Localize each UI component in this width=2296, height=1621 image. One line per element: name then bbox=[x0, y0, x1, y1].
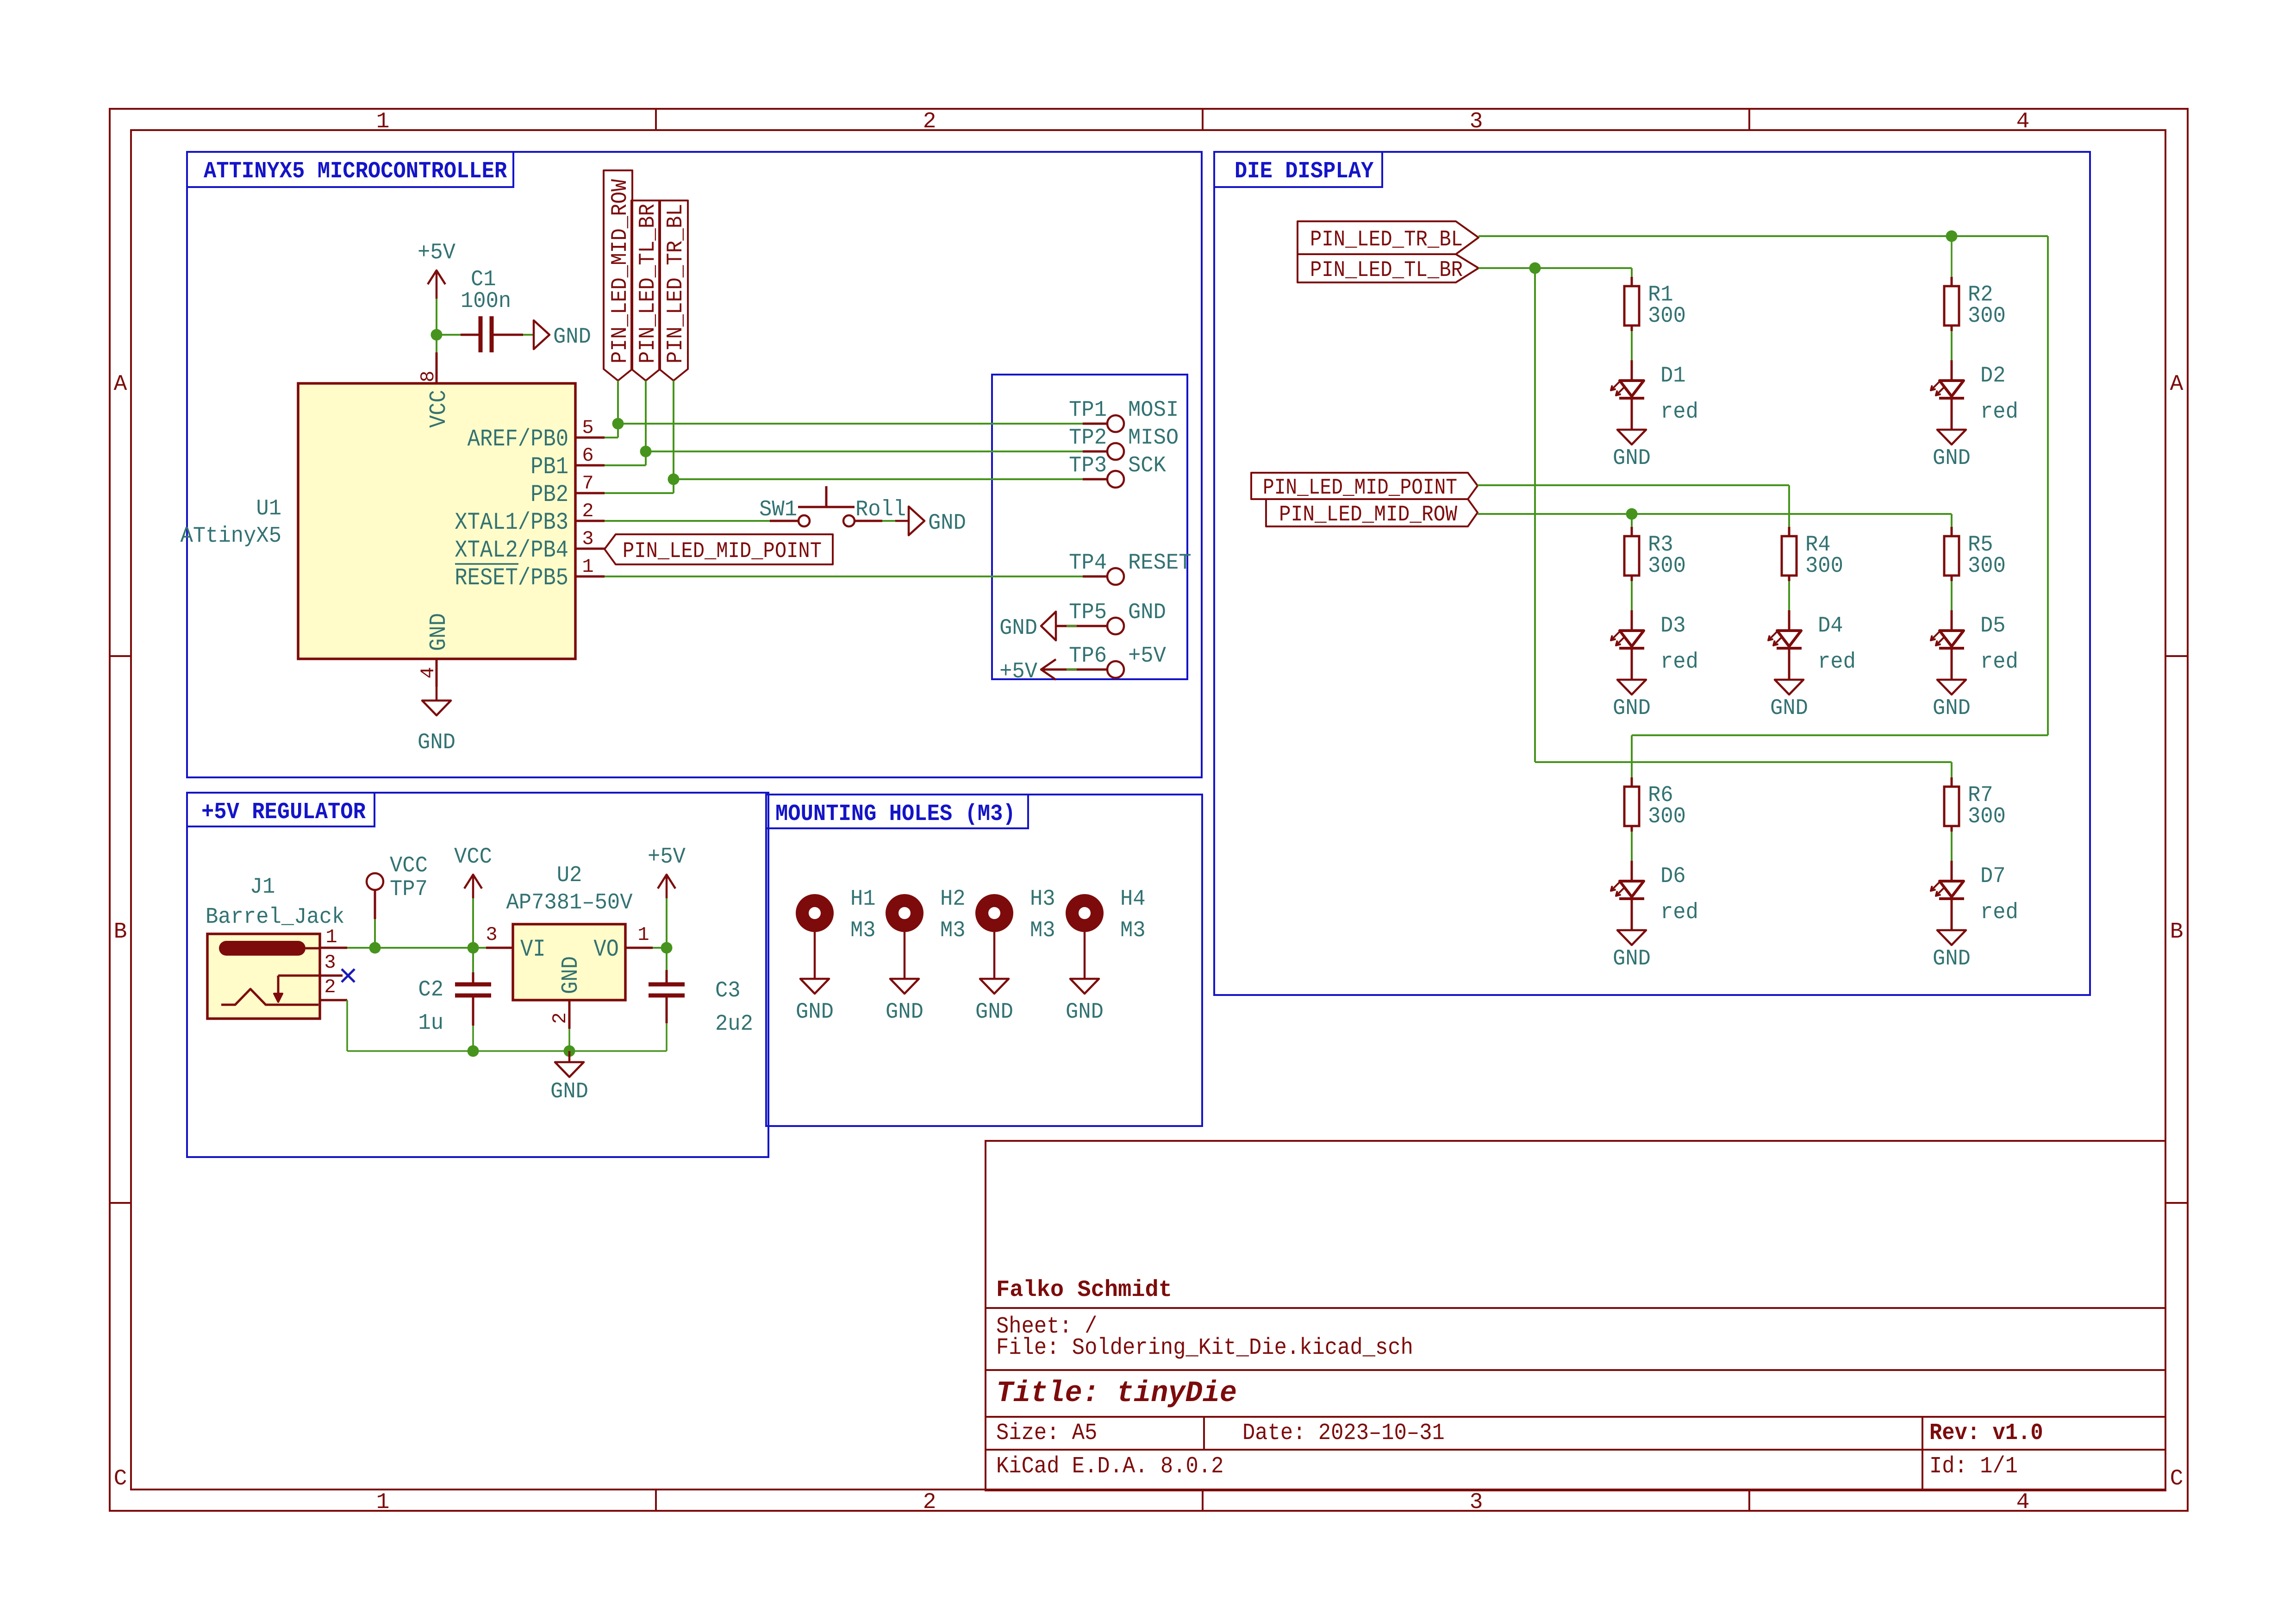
wire R1 to D1 bbox=[1631, 331, 1633, 360]
svg-text:TP3: TP3 bbox=[1069, 453, 1107, 478]
svg-text:PIN_LED_TR_BL: PIN_LED_TR_BL bbox=[1310, 227, 1463, 252]
svg-text:TP7: TP7 bbox=[390, 877, 428, 902]
section box DIE DISPLAY bbox=[1214, 152, 2090, 995]
svg-text:ATtinyX5: ATtinyX5 bbox=[181, 524, 281, 549]
svg-text:M3: M3 bbox=[1120, 918, 1146, 943]
svg-text:1: 1 bbox=[376, 1490, 390, 1515]
svg-text:D6: D6 bbox=[1660, 864, 1686, 889]
IC U2 AP7381-50V body bbox=[506, 863, 633, 1000]
svg-text:5: 5 bbox=[582, 417, 593, 439]
junction at U2 output bbox=[661, 942, 673, 954]
svg-text:C2: C2 bbox=[418, 977, 443, 1002]
svg-text:U1: U1 bbox=[256, 496, 281, 521]
J1 pin 2 bbox=[320, 976, 347, 1000]
switch SW1 Roll bbox=[759, 486, 906, 526]
svg-text:red: red bbox=[1980, 400, 2018, 425]
LED D4 bbox=[1768, 610, 1856, 675]
resistor R1 bbox=[1624, 277, 1686, 331]
hierarchical label PIN_LED_MID_POINT bbox=[1251, 473, 1478, 501]
U1 pin 3 XTAL2/PB4 bbox=[455, 528, 605, 564]
svg-text:AP7381–50V: AP7381–50V bbox=[506, 890, 633, 915]
junction at R2 top bbox=[1946, 231, 1958, 242]
svg-text:4: 4 bbox=[2016, 109, 2030, 134]
wire PIN_LED_TR_BL to pin 7 bbox=[605, 381, 674, 493]
svg-text:M3: M3 bbox=[850, 918, 876, 943]
svg-text:6: 6 bbox=[582, 444, 593, 467]
wire pin6 row to TP2 bbox=[646, 451, 1083, 452]
ground symbol below D5 bbox=[1933, 680, 1971, 721]
svg-text:+5V: +5V bbox=[418, 240, 455, 265]
svg-text:PIN_LED_TL_BR: PIN_LED_TL_BR bbox=[1310, 258, 1463, 283]
svg-text:300: 300 bbox=[1805, 554, 1843, 579]
svg-text:SW1: SW1 bbox=[759, 497, 797, 522]
svg-text:GND: GND bbox=[1613, 946, 1651, 971]
wire J1 pin1 to VI node bbox=[347, 947, 486, 949]
wire D7 to ground bbox=[1951, 897, 1953, 930]
svg-text:PIN_LED_TR_BL: PIN_LED_TR_BL bbox=[663, 204, 688, 363]
svg-text:J1: J1 bbox=[250, 875, 275, 900]
junction node at U1 VCC bbox=[431, 329, 443, 341]
svg-text:C: C bbox=[2170, 1466, 2184, 1491]
LED D6 bbox=[1611, 861, 1698, 925]
resistor R4 bbox=[1782, 527, 1843, 581]
ground flag GND left of TP5 bbox=[999, 612, 1056, 641]
junction at pin7 column bbox=[668, 474, 680, 485]
wire net PIN_LED_TR_BL top run bbox=[1479, 236, 2048, 777]
resistor R2 bbox=[1944, 277, 2006, 331]
svg-text:B: B bbox=[114, 920, 127, 945]
wire D5 to ground bbox=[1951, 647, 1953, 680]
svg-text:H2: H2 bbox=[940, 887, 966, 912]
svg-text:Size: A5: Size: A5 bbox=[996, 1420, 1097, 1446]
svg-text:1u: 1u bbox=[418, 1011, 443, 1036]
wire R6 to D6 bbox=[1631, 832, 1633, 861]
svg-text:D3: D3 bbox=[1660, 613, 1686, 638]
frame row dividers bbox=[110, 656, 2188, 1203]
capacitor C3 bbox=[649, 948, 753, 1051]
svg-text:M3: M3 bbox=[1030, 918, 1055, 943]
J1 sleeve to pin line bbox=[306, 947, 320, 950]
test point TP2 MISO bbox=[1069, 426, 1179, 460]
svg-text:M3: M3 bbox=[940, 918, 966, 943]
U2 pin 3 VI bbox=[486, 924, 513, 948]
wire D2 to ground bbox=[1951, 397, 1953, 430]
junction at pin6 column bbox=[640, 446, 652, 457]
junction at R3 top bbox=[1626, 508, 1638, 520]
svg-text:SCK: SCK bbox=[1128, 453, 1166, 478]
svg-text:2: 2 bbox=[923, 1490, 936, 1515]
wire pin5 row to TP1 bbox=[618, 423, 1083, 425]
svg-text:300: 300 bbox=[1648, 554, 1686, 579]
resistor R7 bbox=[1944, 777, 2006, 832]
svg-text:8: 8 bbox=[417, 370, 439, 382]
wire R3 to D3 bbox=[1631, 581, 1633, 610]
svg-text:KiCad E.D.A. 8.0.2: KiCad E.D.A. 8.0.2 bbox=[996, 1453, 1223, 1480]
svg-text:red: red bbox=[1660, 900, 1698, 925]
svg-text:PIN_LED_MID_POINT: PIN_LED_MID_POINT bbox=[1263, 476, 1457, 501]
power symbol +5V above U1 bbox=[418, 240, 455, 299]
svg-text:+5V: +5V bbox=[648, 845, 686, 870]
ground symbol below D4 bbox=[1770, 680, 1808, 721]
svg-text:+5V REGULATOR: +5V REGULATOR bbox=[201, 799, 366, 826]
wire pin7 row to TP3 bbox=[674, 478, 1083, 480]
frame column labels 1-4 top bbox=[376, 109, 2030, 134]
LED D3 bbox=[1611, 610, 1698, 675]
wire D1 to ground bbox=[1631, 397, 1633, 430]
svg-text:GND: GND bbox=[558, 956, 584, 994]
hierarchical label PIN_LED_TR_BL (vertical) bbox=[659, 200, 688, 381]
svg-text:RESET/PB5: RESET/PB5 bbox=[455, 564, 568, 592]
LED D1 bbox=[1611, 360, 1698, 425]
U1 pin 5 AREF/PB0 bbox=[468, 417, 605, 453]
wire D3 to ground bbox=[1631, 647, 1633, 680]
ground symbol below D1 bbox=[1613, 430, 1651, 471]
wire pin 2 XTAL1 to SW1 bbox=[605, 520, 770, 522]
svg-text:GND: GND bbox=[796, 1000, 834, 1025]
svg-text:AREF/PB0: AREF/PB0 bbox=[468, 426, 568, 453]
mounting hole H4 bbox=[1066, 887, 1146, 943]
svg-text:XTAL2/PB4: XTAL2/PB4 bbox=[455, 537, 568, 564]
svg-text:1: 1 bbox=[376, 109, 390, 134]
wire TR_BL junction down to R2 bbox=[1951, 236, 1953, 277]
svg-text:3: 3 bbox=[582, 528, 593, 550]
frame row labels A-C left bbox=[114, 372, 127, 1491]
ground symbol below D2 bbox=[1933, 430, 1971, 471]
svg-text:GND: GND bbox=[553, 325, 591, 350]
svg-text:File: Soldering_Kit_Die.kicad_: File: Soldering_Kit_Die.kicad_sch bbox=[996, 1335, 1413, 1361]
wire SW1 to GND flag bbox=[882, 520, 895, 522]
U1 pin 8 VCC bbox=[417, 352, 452, 428]
svg-text:GND: GND bbox=[550, 1079, 588, 1104]
svg-text:4: 4 bbox=[417, 667, 439, 678]
svg-text:PIN_LED_MID_POINT: PIN_LED_MID_POINT bbox=[623, 539, 822, 564]
junction at U2 GND bbox=[564, 1045, 575, 1057]
wire net PIN_LED_MID_POINT run bbox=[1478, 485, 1789, 527]
test point TP7 VCC bbox=[367, 853, 428, 948]
svg-text:TP2: TP2 bbox=[1069, 426, 1107, 451]
wire pin8 to +5V and C1 node bbox=[436, 299, 437, 352]
svg-text:3: 3 bbox=[324, 951, 336, 974]
svg-text:2: 2 bbox=[582, 500, 593, 522]
svg-text:100n: 100n bbox=[461, 289, 511, 314]
wire pin 1 RESET to TP4 bbox=[605, 576, 1083, 577]
J1 pin 1 bbox=[320, 926, 347, 948]
svg-text:GND: GND bbox=[1933, 696, 1971, 721]
svg-text:300: 300 bbox=[1648, 304, 1686, 329]
svg-text:MOSI: MOSI bbox=[1128, 398, 1179, 423]
svg-text:GND: GND bbox=[975, 1000, 1013, 1025]
svg-text:red: red bbox=[1660, 400, 1698, 425]
svg-text:Falko Schmidt: Falko Schmidt bbox=[996, 1277, 1172, 1303]
ground flag GND right of C1 bbox=[534, 320, 591, 350]
svg-text:H4: H4 bbox=[1120, 887, 1146, 912]
ground symbol below H2 bbox=[886, 932, 923, 1025]
U1 pin 7 PB2 bbox=[530, 472, 605, 508]
power symbol VCC bbox=[454, 845, 492, 948]
svg-text:2: 2 bbox=[923, 109, 936, 134]
svg-text:PIN_LED_MID_ROW: PIN_LED_MID_ROW bbox=[1279, 502, 1457, 527]
frame column labels 1-4 bottom bbox=[376, 1490, 2030, 1515]
sheet frame inner border bbox=[131, 130, 2165, 1490]
svg-text:red: red bbox=[1818, 650, 1856, 675]
wire R4 to D4 bbox=[1788, 581, 1790, 610]
svg-text:GND: GND bbox=[1770, 696, 1808, 721]
section box MOUNTING HOLES (M3) bbox=[766, 795, 1202, 1126]
mounting hole H3 bbox=[975, 887, 1055, 943]
svg-text:MOUNTING HOLES (M3): MOUNTING HOLES (M3) bbox=[775, 801, 1016, 827]
test point TP1 MOSI bbox=[1069, 398, 1179, 432]
svg-text:4: 4 bbox=[2016, 1490, 2030, 1515]
wire net PIN_LED_MID_ROW run bbox=[1478, 514, 1952, 527]
U2 pin 1 VO bbox=[625, 924, 653, 948]
U1 pin 4 GND bbox=[417, 613, 452, 687]
svg-text:GND: GND bbox=[426, 613, 452, 651]
svg-text:ATTINYX5 MICROCONTROLLER: ATTINYX5 MICROCONTROLLER bbox=[204, 158, 507, 185]
svg-text:C: C bbox=[114, 1466, 127, 1491]
svg-text:3: 3 bbox=[1470, 1490, 1483, 1515]
hierarchical label PIN_LED_TL_BR (vertical) bbox=[631, 200, 661, 381]
J1 pin 3 bbox=[320, 951, 343, 976]
svg-text:D2: D2 bbox=[1980, 363, 2006, 388]
hierarchical label PIN_LED_MID_ROW (vertical) bbox=[604, 170, 633, 381]
resistor R3 bbox=[1624, 527, 1686, 581]
svg-text:GND: GND bbox=[418, 730, 455, 755]
wire net PIN_LED_TL_BR run bbox=[1479, 268, 1952, 777]
wire PIN_LED_TL_BR to pin 6 bbox=[605, 381, 646, 465]
svg-text:2: 2 bbox=[324, 976, 336, 998]
svg-text:GND: GND bbox=[1933, 946, 1971, 971]
svg-text:Barrel_Jack: Barrel_Jack bbox=[206, 905, 344, 930]
J1 internal switch contact bbox=[221, 976, 320, 1005]
ground symbol GND below U1 pin 4 bbox=[418, 687, 455, 755]
svg-text:3: 3 bbox=[486, 924, 497, 946]
svg-text:300: 300 bbox=[1648, 804, 1686, 829]
ground symbol below D7 bbox=[1933, 930, 1971, 971]
svg-text:2: 2 bbox=[549, 1012, 571, 1024]
sheet frame outer border bbox=[110, 109, 2188, 1511]
svg-text:TP4: TP4 bbox=[1069, 551, 1107, 576]
svg-text:Date: 2023–10–31: Date: 2023–10–31 bbox=[1242, 1420, 1445, 1446]
svg-text:TP1: TP1 bbox=[1069, 398, 1107, 423]
svg-text:D1: D1 bbox=[1660, 363, 1686, 388]
section box +5V REGULATOR bbox=[187, 793, 768, 1157]
svg-text:1: 1 bbox=[637, 924, 649, 946]
junction at C2 bottom bbox=[468, 1045, 479, 1057]
svg-text:MISO: MISO bbox=[1128, 426, 1179, 451]
svg-text:PB1: PB1 bbox=[530, 453, 568, 481]
svg-text:B: B bbox=[2170, 920, 2184, 945]
svg-text:VCC: VCC bbox=[454, 845, 492, 870]
ground symbol below D3 bbox=[1613, 680, 1651, 721]
resistor R6 bbox=[1624, 777, 1686, 832]
capacitor C1 bbox=[437, 267, 523, 352]
svg-text:TP5: TP5 bbox=[1069, 600, 1107, 625]
svg-text:300: 300 bbox=[1968, 554, 2006, 579]
svg-text:3: 3 bbox=[1470, 109, 1483, 134]
capacitor C2 bbox=[418, 948, 491, 1051]
svg-text:PIN_LED_TL_BR: PIN_LED_TL_BR bbox=[636, 204, 661, 363]
power symbol +5V at U2 output bbox=[648, 845, 686, 948]
wire R7 to D7 bbox=[1951, 832, 1953, 861]
test point TP6 +5V bbox=[1041, 644, 1166, 678]
title block outline bbox=[986, 1141, 2165, 1490]
wire D4 to ground bbox=[1788, 647, 1791, 680]
frame row labels A-C right bbox=[2170, 372, 2184, 1491]
resistor R5 bbox=[1944, 527, 2006, 581]
U1 pin 6 PB1 bbox=[530, 444, 605, 481]
svg-text:GND: GND bbox=[886, 1000, 923, 1025]
LED D2 bbox=[1931, 360, 2018, 425]
svg-text:PIN_LED_MID_ROW: PIN_LED_MID_ROW bbox=[608, 179, 633, 363]
junction at pin5 column bbox=[612, 418, 624, 430]
svg-text:1: 1 bbox=[325, 926, 337, 948]
svg-text:TP6: TP6 bbox=[1069, 644, 1107, 669]
svg-text:+5V: +5V bbox=[999, 659, 1037, 684]
wire VO to +5V node bbox=[653, 947, 667, 949]
svg-text:Title: tinyDie: Title: tinyDie bbox=[996, 1377, 1237, 1410]
svg-text:A: A bbox=[114, 372, 127, 397]
U1 pin 1 RESET/PB5 bbox=[455, 556, 605, 592]
mounting hole H1 bbox=[796, 887, 876, 943]
svg-text:Roll: Roll bbox=[855, 497, 906, 522]
svg-text:XTAL1/PB3: XTAL1/PB3 bbox=[455, 509, 568, 536]
section box test points inner bbox=[992, 375, 1187, 679]
hierarchical label PIN_LED_TL_BR bbox=[1298, 254, 1479, 283]
svg-text:GND: GND bbox=[1613, 696, 1651, 721]
U1 pin 2 XTAL1/PB3 bbox=[455, 500, 605, 536]
wire C1 to GND flag bbox=[523, 334, 534, 336]
svg-text:DIE DISPLAY: DIE DISPLAY bbox=[1235, 158, 1373, 185]
LED D5 bbox=[1931, 610, 2018, 675]
hierarchical label PIN_LED_MID_POINT at U1 pin 3 bbox=[605, 534, 833, 564]
wire D6 to ground bbox=[1631, 897, 1633, 930]
svg-text:1: 1 bbox=[582, 556, 593, 578]
svg-text:H1: H1 bbox=[850, 887, 876, 912]
test point TP4 RESET bbox=[1069, 551, 1191, 585]
svg-text:D7: D7 bbox=[1980, 864, 2006, 889]
svg-text:Rev: v1.0: Rev: v1.0 bbox=[1929, 1420, 2043, 1446]
ground symbol below H1 bbox=[796, 932, 834, 1025]
svg-text:VCC: VCC bbox=[390, 853, 428, 878]
junction at VCC / C2 node bbox=[468, 942, 479, 954]
svg-text:C1: C1 bbox=[471, 267, 496, 292]
U2 pin 2 GND bbox=[549, 1000, 571, 1051]
svg-text:2u2: 2u2 bbox=[715, 1012, 753, 1037]
wire R5 to D5 bbox=[1951, 581, 1953, 610]
svg-text:VO: VO bbox=[593, 936, 619, 963]
svg-text:red: red bbox=[1980, 650, 2018, 675]
mounting hole H2 bbox=[886, 887, 966, 943]
svg-text:D4: D4 bbox=[1818, 613, 1843, 638]
LED D7 bbox=[1931, 861, 2018, 925]
test point TP5 GND bbox=[1056, 600, 1166, 634]
test point TP3 SCK bbox=[1069, 453, 1166, 488]
ground symbol below U2 bbox=[550, 1051, 588, 1104]
wire R2 to D2 bbox=[1951, 331, 1953, 360]
svg-text:7: 7 bbox=[582, 472, 593, 494]
power flag +5V left of TP6 bbox=[999, 659, 1056, 684]
svg-text:Id: 1/1: Id: 1/1 bbox=[1929, 1453, 2018, 1480]
IC U1 ATtinyX5 body bbox=[181, 383, 575, 659]
ground symbol below H4 bbox=[1066, 932, 1104, 1025]
svg-text:D5: D5 bbox=[1980, 613, 2006, 638]
svg-text:H3: H3 bbox=[1030, 887, 1055, 912]
junction at TP7 branch bbox=[369, 942, 381, 954]
svg-text:C3: C3 bbox=[715, 978, 741, 1003]
svg-text:red: red bbox=[1980, 900, 2018, 925]
wire J1 pin 2 down to ground rail bbox=[347, 1000, 667, 1051]
svg-text:300: 300 bbox=[1968, 304, 2006, 329]
svg-text:GND: GND bbox=[1128, 600, 1166, 625]
svg-text:PB2: PB2 bbox=[530, 481, 568, 508]
svg-text:GND: GND bbox=[1933, 446, 1971, 471]
svg-text:VCC: VCC bbox=[426, 390, 452, 428]
svg-text:red: red bbox=[1660, 650, 1698, 675]
connector J1 Barrel_Jack body bbox=[206, 875, 344, 1019]
svg-text:U2: U2 bbox=[557, 863, 582, 888]
svg-text:VI: VI bbox=[520, 936, 546, 963]
ground flag GND right of SW1 bbox=[895, 507, 966, 536]
junction at TL_BR branch bbox=[1529, 263, 1541, 274]
wire PIN_LED_MID_ROW to pin 5 bbox=[605, 381, 618, 438]
no-connect cross at J1 pin 3 bbox=[342, 969, 355, 982]
ground symbol below H3 bbox=[975, 932, 1013, 1025]
svg-text:A: A bbox=[2170, 372, 2184, 397]
frame column dividers bbox=[656, 109, 1749, 1511]
svg-text:RESET: RESET bbox=[1128, 551, 1192, 576]
svg-text:GND: GND bbox=[1066, 1000, 1104, 1025]
svg-text:+5V: +5V bbox=[1128, 644, 1166, 669]
ground symbol below D6 bbox=[1613, 930, 1651, 971]
svg-text:GND: GND bbox=[928, 511, 966, 536]
section box ATTINYX5 MICROCONTROLLER bbox=[187, 152, 1202, 777]
svg-text:GND: GND bbox=[999, 616, 1037, 641]
svg-text:GND: GND bbox=[1613, 446, 1651, 471]
svg-text:300: 300 bbox=[1968, 804, 2006, 829]
hierarchical label PIN_LED_TR_BL bbox=[1298, 221, 1479, 254]
J1 sleeve bar bbox=[219, 941, 306, 956]
title block separator lines bbox=[986, 1308, 2165, 1490]
hierarchical label PIN_LED_MID_ROW bbox=[1266, 499, 1478, 527]
